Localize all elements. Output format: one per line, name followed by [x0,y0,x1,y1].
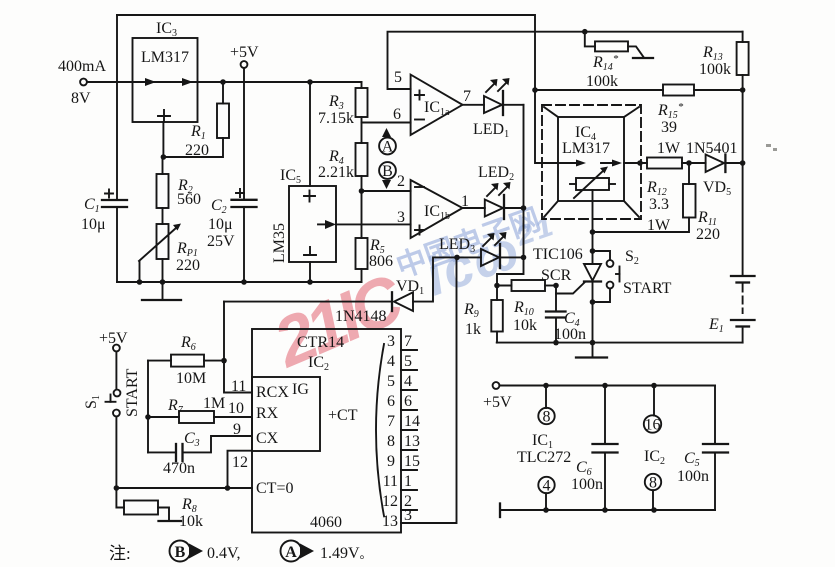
svg-text:7: 7 [463,88,471,105]
node R7 left [145,414,151,420]
svg-text:0.4V,: 0.4V, [207,545,241,562]
LED1 [473,78,524,140]
svg-text:4: 4 [387,353,395,370]
svg-text:5: 5 [387,373,395,390]
node A [379,128,396,156]
wire VD1 anode link [413,257,457,301]
node LED3 junction [521,255,527,261]
node R4 pin2 [359,188,365,194]
node SCR gnd [590,340,596,346]
svg-text:LED1: LED1 [473,121,509,140]
svg-text:3: 3 [397,209,405,226]
node SCR cathode [590,299,596,305]
svg-text:25V: 25V [207,233,235,250]
svg-text:1N5401: 1N5401 [686,140,738,157]
node VD5 cathode [740,160,746,166]
pin 8 IC2 [645,474,661,510]
node feedback R14 [582,29,588,35]
svg-text:START: START [124,368,141,417]
resistor R11 220 [593,163,721,243]
svg-text:100n: 100n [571,476,603,493]
noise specks [766,144,777,151]
terminal +5V [230,44,259,200]
svg-text:CT=0: CT=0 [256,480,293,497]
switch S2 START [593,248,672,302]
wire IC4 out [624,162,647,164]
svg-text:7: 7 [387,413,395,430]
svg-text:B: B [382,163,393,180]
node R11 top [686,160,692,166]
svg-text:6: 6 [387,393,395,410]
wire LM35 output to pin3 [336,223,411,225]
wire IC3 adj [162,122,164,157]
svg-text:RCX: RCX [256,384,289,401]
svg-text:B: B [175,544,186,561]
battery E1 [708,163,755,343]
ground SCR [576,343,607,358]
resistor R7 1M [148,395,252,423]
svg-text:9: 9 [233,421,241,438]
LED2 [478,164,524,219]
capacitor C2 10u 25V [207,189,257,282]
svg-text:CX: CX [256,430,279,447]
svg-text:4060: 4060 [310,514,342,531]
svg-text:560: 560 [177,191,201,208]
svg-text:1N4148: 1N4148 [335,308,387,325]
svg-text:1M: 1M [203,395,225,412]
svg-text:3.3: 3.3 [649,196,669,213]
node IC2 pin8 gnd [651,507,657,513]
node RP1 wiper [137,279,143,285]
svg-text:16: 16 [645,417,661,434]
svg-text:START: START [623,280,672,297]
resistor R5 806 [356,237,394,282]
svg-text:+5V: +5V [483,394,512,411]
svg-text:10M: 10M [176,370,206,387]
ground R8 [159,520,182,522]
svg-text:470n: 470n [163,460,195,477]
ground left [142,282,181,300]
svg-text:A: A [382,139,394,156]
IC2 bracket [376,344,384,516]
svg-text:11: 11 [383,473,398,490]
diode VD5 1N5401 [686,140,743,198]
svg-text:8V: 8V [71,90,91,107]
svg-text:LED3: LED3 [439,236,475,255]
watermark red 21IC [262,259,415,382]
svg-text:100n: 100n [554,326,586,343]
switch S1 START [83,368,141,488]
node LED3 anode [454,255,460,261]
node R13 bottom [740,87,746,93]
node pin12 branch [225,485,231,491]
terminal +5V decoupling [483,382,715,411]
resistor R1 220 [163,82,229,159]
node R6 right [221,358,227,364]
ground tick decoupling [499,504,501,518]
svg-text:100n: 100n [677,468,709,485]
potentiometer RP1 220 [139,224,200,283]
wire IC1b output [463,207,485,209]
svg-text:6: 6 [393,106,401,123]
svg-text:1: 1 [404,473,412,490]
svg-text:1k: 1k [465,321,481,338]
wire pin13 long stub [401,257,457,523]
node IC5 supply [307,79,313,85]
node IC1 pin4 gnd [543,507,549,513]
node C4 bottom [553,340,559,346]
op-amp IC1a [393,69,471,135]
thyristor TIC106 SCR [533,246,601,343]
wire VD1 to R6/pin11 [224,302,252,393]
resistor R13 100k [699,32,749,163]
capacitor C1 10u [81,190,127,234]
svg-text:39: 39 [661,119,677,136]
input terminal 400mA 8V [58,58,133,107]
node R1/R2 [161,154,167,160]
node RP1 bottom [160,279,166,285]
resistor R15 39 1W [535,85,743,158]
wire pin2 [362,190,411,192]
svg-text:12: 12 [232,454,248,471]
svg-text:5: 5 [404,353,412,370]
capacitor C4 100n [546,286,586,344]
svg-text:RX: RX [256,405,279,422]
svg-text:IG: IG [292,381,309,398]
svg-text:+5V: +5V [99,330,128,347]
svg-text:10k: 10k [179,513,203,530]
watermark blue cursive [418,205,566,307]
wire decoupling gnd rail [500,509,715,511]
svg-text:A: A [285,544,297,561]
node LED2 junction [521,205,527,211]
svg-text:220: 220 [185,142,209,159]
svg-text:LM35: LM35 [271,223,288,263]
svg-text:100k: 100k [586,73,618,90]
svg-text:TIC106: TIC106 [533,246,583,263]
capacitor C6 100n [571,386,618,511]
svg-text:400mA: 400mA [58,58,106,75]
regulator IC3 LM317 box [133,20,198,122]
wire CT=0 line [116,487,252,489]
svg-text:+5V: +5V [230,44,259,61]
capacitor C5 100n [677,386,728,511]
svg-text:8: 8 [543,409,551,426]
svg-text:LM317: LM317 [562,140,610,157]
svg-text:11: 11 [231,378,246,395]
svg-text:10μ: 10μ [81,216,106,233]
svg-text:注:: 注: [109,544,131,563]
wire SCR bottom rail [497,342,743,344]
pin 16 IC2 [644,386,665,468]
node IC4 out [637,160,643,166]
regulator IC4 LM317 dashed block [542,105,641,233]
wire pin5 loop [388,32,743,89]
sensor IC5 LM35 [271,82,336,282]
node C4 top [553,283,559,289]
svg-text:8: 8 [649,475,657,492]
svg-text:13: 13 [404,433,420,450]
node C2 bottom [241,279,247,285]
svg-text:5: 5 [394,69,402,86]
svg-text:LED2: LED2 [478,164,514,183]
svg-text:4: 4 [543,478,551,495]
svg-text:2.21k: 2.21k [318,164,354,181]
svg-text:LM317: LM317 [141,49,189,66]
pin 8 IC1 [517,386,571,467]
svg-text:13: 13 [382,513,398,530]
resistor R2 560 [157,157,202,224]
svg-text:3: 3 [404,507,412,524]
svg-text:7: 7 [404,333,412,350]
pin 4 IC1 [538,477,554,510]
node IC2 pin16 [651,383,657,389]
svg-text:TLC272: TLC272 [517,449,571,466]
wire left vertical [116,15,118,200]
trimmer R14 100k [585,32,653,90]
wire SCR anode [592,232,594,264]
capacitor C3 470n [148,430,252,477]
node R10 left [494,283,500,289]
svg-text:1.49V。: 1.49V。 [320,545,372,562]
svg-text:10: 10 [228,400,244,417]
counter IC2 CTR14 4060 box [228,329,401,533]
svg-text:7.15k: 7.15k [318,110,354,127]
svg-text:100k: 100k [699,61,731,78]
diode VD1 1N4148 [224,278,424,325]
svg-text:10μ: 10μ [208,216,233,233]
IC2 right pin stubs [382,333,420,530]
wire pin12 [228,451,253,488]
node S1 bottom [114,485,120,491]
svg-text:12: 12 [382,493,398,510]
watermark blue chinese text [392,203,544,284]
wire top border [117,15,558,163]
wire bottom rail left [117,281,362,283]
wire R6-R7-C3 left leg [147,361,149,453]
resistor R6 10M [148,334,224,387]
svg-text:2: 2 [397,173,405,190]
wire IC1a output [463,104,485,106]
note line [109,541,372,564]
svg-text:1W: 1W [657,140,681,157]
svg-text:9: 9 [387,453,395,470]
node IC5 gnd [307,279,313,285]
resistor R4 2.21k [318,143,368,238]
node S2 top tap [590,248,596,254]
svg-text:CTR14: CTR14 [297,334,344,351]
svg-text:220: 220 [176,257,200,274]
node IC1 pin8 [543,383,549,389]
svg-text:10k: 10k [513,317,537,334]
resistor R12 3.3 1W [646,158,706,235]
LED3 [439,232,524,268]
svg-text:220: 220 [696,226,720,243]
svg-text:6: 6 [404,393,412,410]
wire pin6 [362,122,411,124]
svg-text:4: 4 [404,373,412,390]
wire +5V rail [198,81,362,83]
node C6 bottom [602,507,608,513]
svg-text:8: 8 [387,433,395,450]
node C6 top [602,383,608,389]
svg-text:+CT: +CT [328,407,358,424]
wire LED column [523,105,525,258]
node top border to R15 [532,87,538,93]
terminal +5V S1 [99,330,128,390]
resistor R9 1k [463,286,503,343]
op-amp IC1b [397,173,469,238]
node SCR anode top [590,229,596,235]
svg-text:806: 806 [369,253,393,270]
node R1 top [220,79,226,85]
svg-text:3: 3 [387,333,395,350]
svg-text:15: 15 [404,453,420,470]
resistor R8 10k [116,488,203,530]
svg-text:14: 14 [404,413,420,430]
node B [379,162,396,189]
resistor R10 10k [497,280,556,334]
resistor R3 7.15k [318,82,368,143]
